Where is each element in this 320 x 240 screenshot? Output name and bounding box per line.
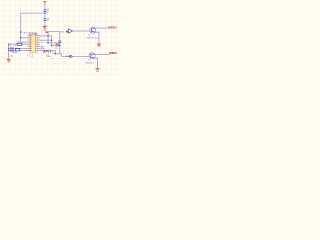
crystal Q1 body [15,49,19,51]
svg-text:C8: C8 [52,53,54,55]
wire bus vertical [51,36,53,46]
svg-text:BC547-1: BC547-1 [86,63,95,65]
svg-text:C3: C3 [14,46,16,48]
junction G2 [59,45,60,46]
wire C8 down [59,43,61,54]
IC1 pin numbers right [34,35,37,51]
ground GND1 [43,26,47,30]
svg-text:56: 56 [55,48,57,50]
IC1 right pins [37,36,40,51]
capacitor C5 [44,10,47,12]
ground GND5 [7,59,11,63]
wire pin8 to C7 [40,50,48,52]
svg-text:100n: 100n [46,56,50,58]
IC1 pin numbers left [30,35,33,51]
svg-text:BC557-16: BC557-16 [87,38,98,40]
svg-text:IC1: IC1 [27,55,33,57]
ground GND2 [56,43,60,48]
wire flag to Q1 [73,30,91,32]
svg-text:DIL-8SMD: DIL-8SMD [29,34,39,36]
wire Q2 emitter [94,58,97,68]
svg-text:22p: 22p [10,56,13,58]
net tick red lower [69,56,71,58]
wire pin1 right [40,35,52,37]
wire VCC stub down [47,36,49,43]
junction D [8,43,10,45]
capacitor C2 [11,47,14,50]
wire C6 to ground [44,21,46,26]
junction C [20,37,22,39]
capacitor C3 [11,49,14,52]
junction G [51,45,53,47]
supply symbol +V top [44,1,47,4]
ground GND4 [97,44,101,48]
svg-text:MOTOR_A: MOTOR_A [108,26,117,29]
wire Q1 collector [95,27,108,29]
wire far-left vertical [8,44,10,50]
wire net top to C8 [45,32,60,41]
svg-text:MOTOR_B: MOTOR_B [109,52,117,55]
resistor R2 body [17,43,22,45]
svg-text:C2: C2 [9,46,11,48]
wire left vertical [20,13,22,42]
wire horizontal top [21,12,45,14]
wire supply to C5 [44,5,46,10]
wire row y42.9 [48,42,57,44]
wire row y53.9 [55,54,70,57]
capacitor C6 [44,19,47,21]
wire pin3 right [40,39,52,41]
wire to pin 2 left [21,37,28,39]
background [0,0,121,75]
supply bar minus [43,50,46,52]
wire Q1 emitter [95,32,99,44]
junction F [51,39,53,41]
net flag lower [70,55,72,58]
net flag upper [68,29,72,33]
junction E2 [47,42,49,44]
capacitor C8 [58,40,61,43]
wire left RC row [9,43,28,45]
IC1 left pins [27,36,30,51]
wire C7 to corner [51,51,56,54]
wire xtal row 2 [9,50,31,52]
transistor Q2 [89,53,95,59]
junction E [47,35,49,37]
wire flag to Q2 [73,55,90,57]
junction D3 [8,50,9,51]
capacitor C7 [48,50,51,53]
svg-text:5: 5 [52,58,53,60]
wire xtal row 1 [9,47,28,49]
grid [0,0,121,75]
wire mid row [52,45,60,47]
ground GND3 [96,68,100,73]
svg-text:1u: 1u [47,11,49,13]
junction A [44,12,46,14]
IC1 body [30,35,37,53]
junction H [55,53,57,55]
junction B [20,31,22,33]
supply symbol VCC drop [45,31,48,34]
wire C5 to junction [44,12,46,19]
svg-text:4MHz: 4MHz [13,52,18,54]
wire Q2 collector [94,53,109,56]
svg-text:4k7: 4k7 [41,42,47,44]
svg-text:1u: 1u [47,20,49,22]
transistor Q1 [90,27,96,33]
junction I [46,50,48,52]
wire to pin 4 left [21,41,28,43]
net tick red upper [66,31,68,33]
wire far-left down [8,51,10,60]
junction D2 [8,48,9,49]
